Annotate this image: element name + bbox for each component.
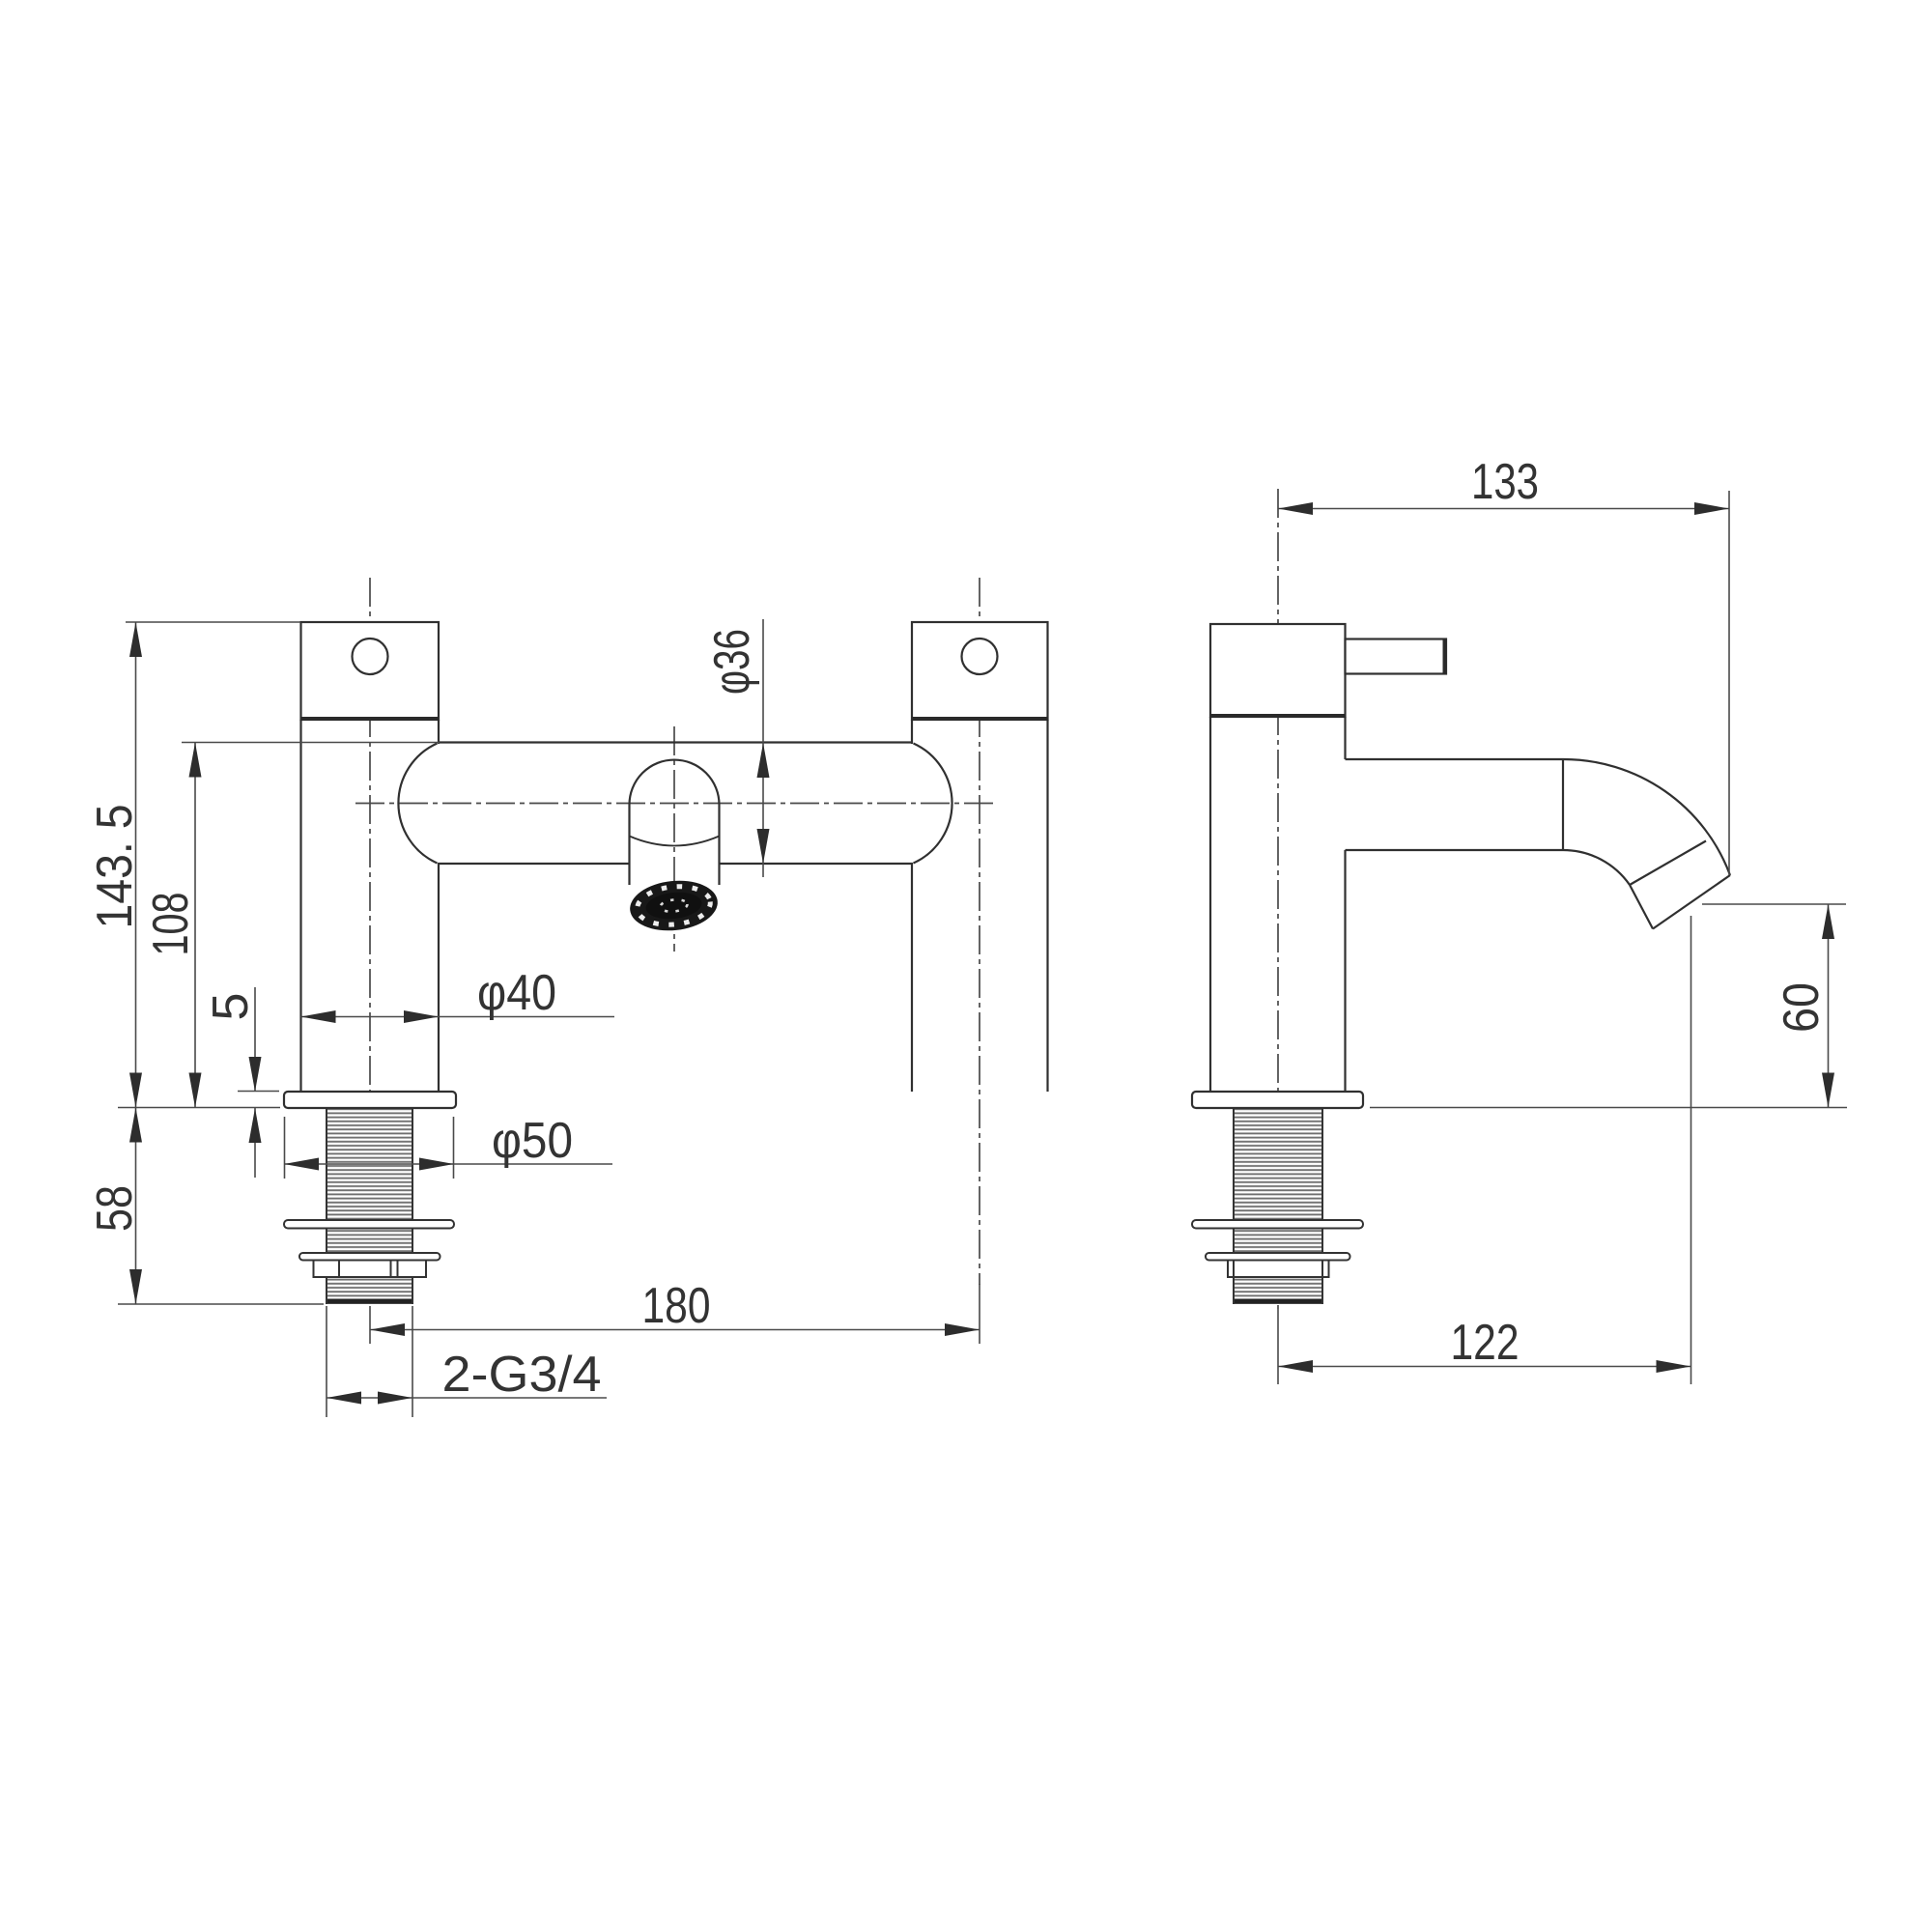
svg-text:58: 58 [87,1185,143,1232]
svg-text:5: 5 [203,993,259,1021]
svg-text:122: 122 [1451,1315,1520,1371]
svg-text:φ50: φ50 [492,1113,573,1169]
svg-text:133: 133 [1471,454,1539,510]
svg-text:60: 60 [1774,982,1830,1033]
svg-text:143. 5: 143. 5 [87,805,143,929]
svg-text:2-G3/4: 2-G3/4 [442,1347,602,1403]
svg-text:108: 108 [143,893,199,956]
svg-text:180: 180 [642,1278,711,1334]
svg-text:φ36: φ36 [704,629,760,695]
svg-text:φ40: φ40 [477,965,556,1021]
